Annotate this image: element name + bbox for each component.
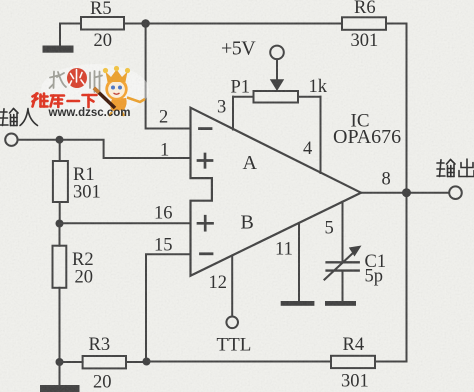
wire right rail [406,24,408,362]
resistor R1 [53,140,68,224]
resistor R3 [60,356,147,368]
resistor R5 [60,17,146,30]
ground (left of R5) [44,24,73,52]
node R5/R6 junction [141,19,150,28]
red circle behind 芯 [67,68,87,88]
node output junction [402,188,411,197]
mascot [103,66,145,116]
维库一下 red text approximation [33,94,97,108]
watermark logo (dzsc) [33,64,150,119]
resistor R2 [53,224,67,363]
TTL terminal [226,317,238,329]
node input/R1 [56,136,64,144]
ground (bottom left) [41,362,79,392]
output terminal [449,186,462,199]
capacitor C1 (variable) [325,246,362,302]
wire pin 1 [60,140,191,158]
label 输入 (input, hand-drawn glyphs) [0,109,38,126]
resistor R6 [342,17,407,30]
wire pin 3 [232,97,234,130]
wire input to node [18,139,60,141]
ground (C1) [325,301,356,306]
input terminal [5,134,17,146]
node R1/R2/pin16 [56,220,64,228]
resistor R4 [331,356,407,368]
wire pin 5 [342,202,344,262]
label 输出 (output, hand-drawn glyphs) [437,159,474,177]
wire pin 16 [60,222,191,224]
op-amp U1 OPA676 outline [191,108,362,276]
找芯片 outline text approximation [50,70,103,93]
plus sign input B [198,216,213,230]
wire pin 12 [231,256,233,317]
wire output pin 8 [361,192,449,194]
ground (pin 11) [281,301,315,306]
plus sign input A [198,154,212,167]
wire bottom net [147,361,332,363]
wire pin 15 [146,254,191,361]
wire pin 11 [298,223,300,301]
wire pin 2 [146,24,191,129]
wire pin 4 [320,97,322,173]
minus sign input B [201,252,213,255]
pen stroke [94,88,115,108]
node R3/pin15 junction [143,358,151,366]
supply +5V terminal [270,46,284,60]
wire top net R5-R6 [146,23,342,25]
minus sign input A [200,127,212,130]
potentiometer P1 [233,59,321,102]
node R2/R3/ground [56,358,64,366]
